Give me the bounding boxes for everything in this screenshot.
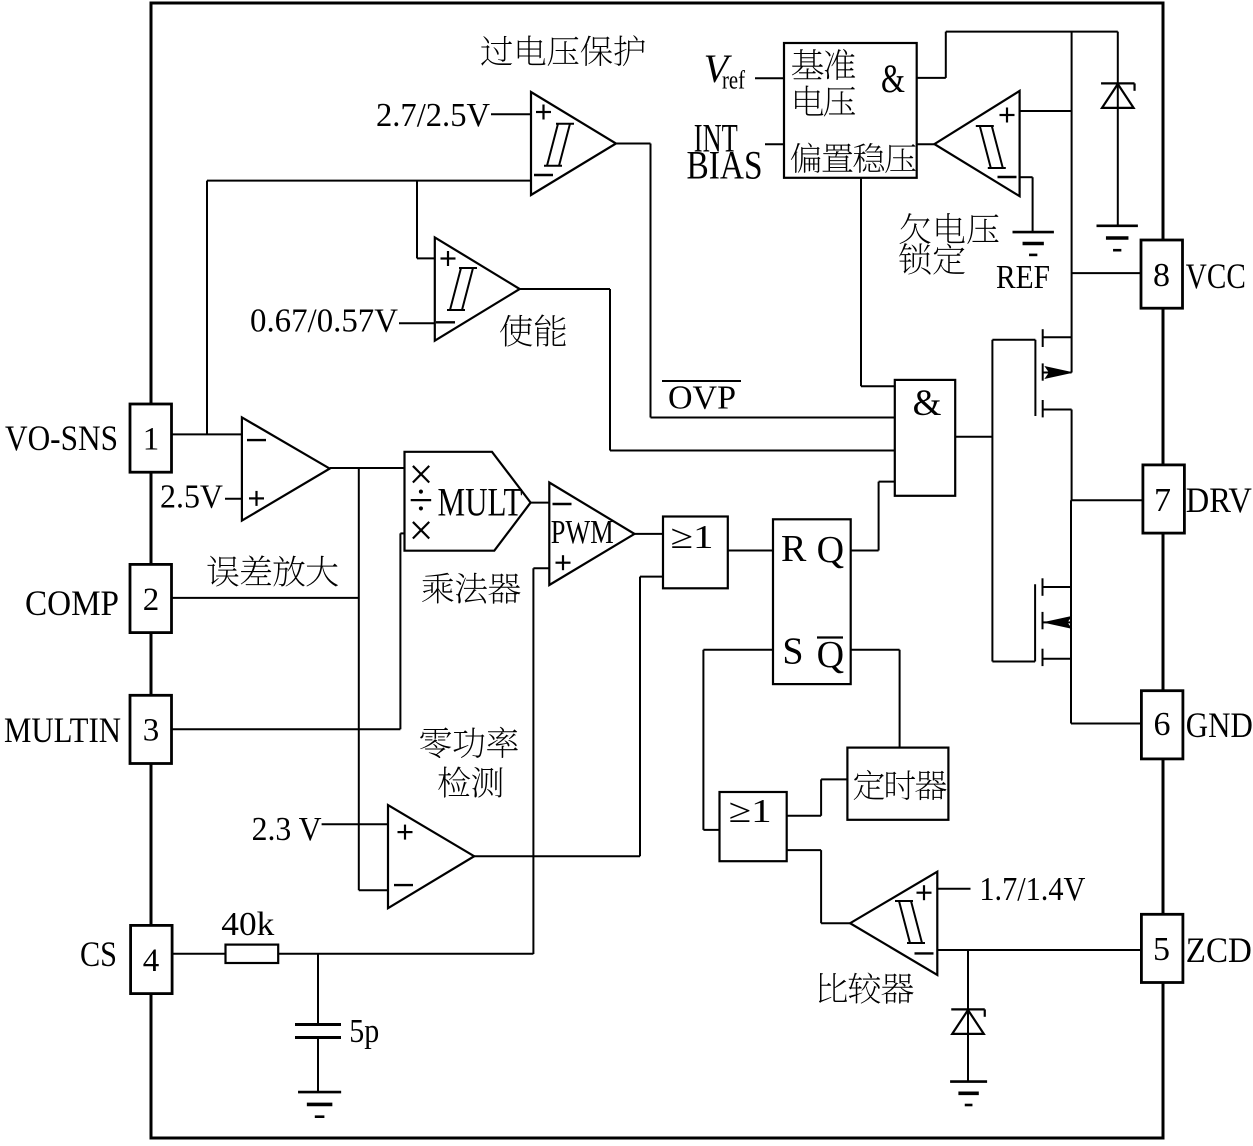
svg-text:4: 4 [143, 943, 160, 979]
svg-text:2.3 V: 2.3 V [252, 811, 322, 848]
svg-text:5: 5 [1153, 931, 1170, 968]
svg-text:1.7/1.4V: 1.7/1.4V [979, 871, 1085, 908]
svg-text:DRV: DRV [1186, 480, 1252, 520]
svg-text:2.7/2.5V: 2.7/2.5V [376, 97, 490, 134]
svg-text:&: & [913, 383, 942, 424]
svg-text:REF: REF [996, 259, 1050, 296]
svg-text:&: & [881, 56, 905, 101]
svg-text:≥1: ≥1 [729, 793, 772, 830]
svg-text:S: S [782, 631, 803, 673]
svg-text:3: 3 [143, 713, 160, 749]
svg-text:CS: CS [80, 934, 117, 974]
svg-text:6: 6 [1154, 706, 1171, 743]
svg-text:1: 1 [143, 422, 160, 458]
svg-text:MULT: MULT [438, 480, 523, 525]
svg-text:VO-SNS: VO-SNS [5, 418, 118, 458]
svg-text:MULTIN: MULTIN [4, 710, 121, 750]
svg-text:ZCD: ZCD [1186, 930, 1252, 970]
svg-text:COMP: COMP [25, 583, 119, 623]
svg-text:R: R [781, 528, 807, 570]
svg-text:Q: Q [817, 634, 844, 676]
svg-text:OVP: OVP [668, 380, 736, 417]
svg-text:2: 2 [143, 582, 160, 618]
svg-text:≥1: ≥1 [671, 519, 714, 556]
svg-text:PWM: PWM [551, 514, 614, 551]
svg-text:8: 8 [1153, 257, 1170, 294]
svg-text:Q: Q [817, 529, 844, 571]
svg-text:7: 7 [1154, 482, 1171, 519]
svg-text:5p: 5p [349, 1013, 379, 1050]
svg-text:ref: ref [722, 66, 745, 95]
svg-text:40k: 40k [221, 906, 274, 943]
svg-text:VCC: VCC [1186, 256, 1246, 296]
svg-text:0.67/0.57V: 0.67/0.57V [250, 303, 398, 340]
svg-text:GND: GND [1186, 705, 1253, 745]
svg-text:×: × [409, 506, 434, 555]
svg-text:BIAS: BIAS [687, 143, 763, 188]
svg-text:2.5V: 2.5V [160, 479, 223, 516]
